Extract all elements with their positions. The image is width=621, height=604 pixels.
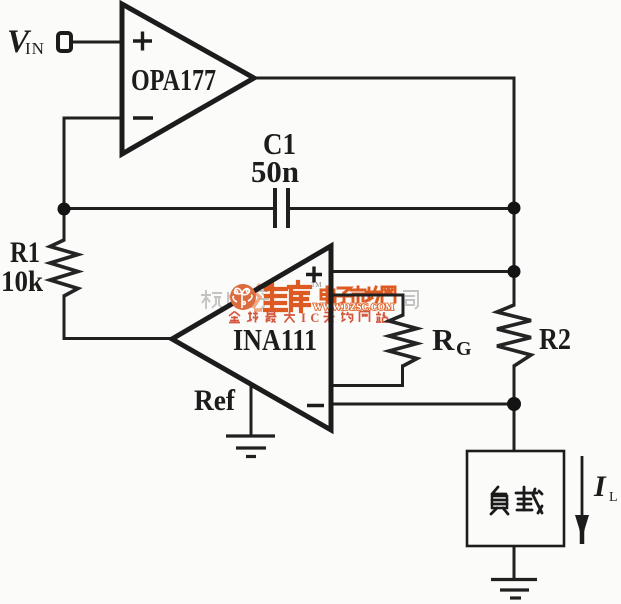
svg-text:G: G: [456, 338, 472, 360]
svg-text:R2: R2: [539, 321, 571, 356]
svg-text:WWW.DZSC.COM: WWW.DZSC.COM: [313, 302, 395, 312]
svg-text:IN: IN: [25, 39, 45, 58]
svg-text:R: R: [432, 322, 455, 357]
svg-text:Ref: Ref: [194, 384, 236, 417]
svg-text:INA111: INA111: [233, 322, 317, 357]
svg-text:10k: 10k: [1, 265, 43, 298]
svg-text:50n: 50n: [251, 154, 299, 189]
svg-text:OPA177: OPA177: [131, 62, 216, 97]
svg-text:L: L: [609, 490, 618, 505]
svg-text:I: I: [593, 470, 607, 503]
